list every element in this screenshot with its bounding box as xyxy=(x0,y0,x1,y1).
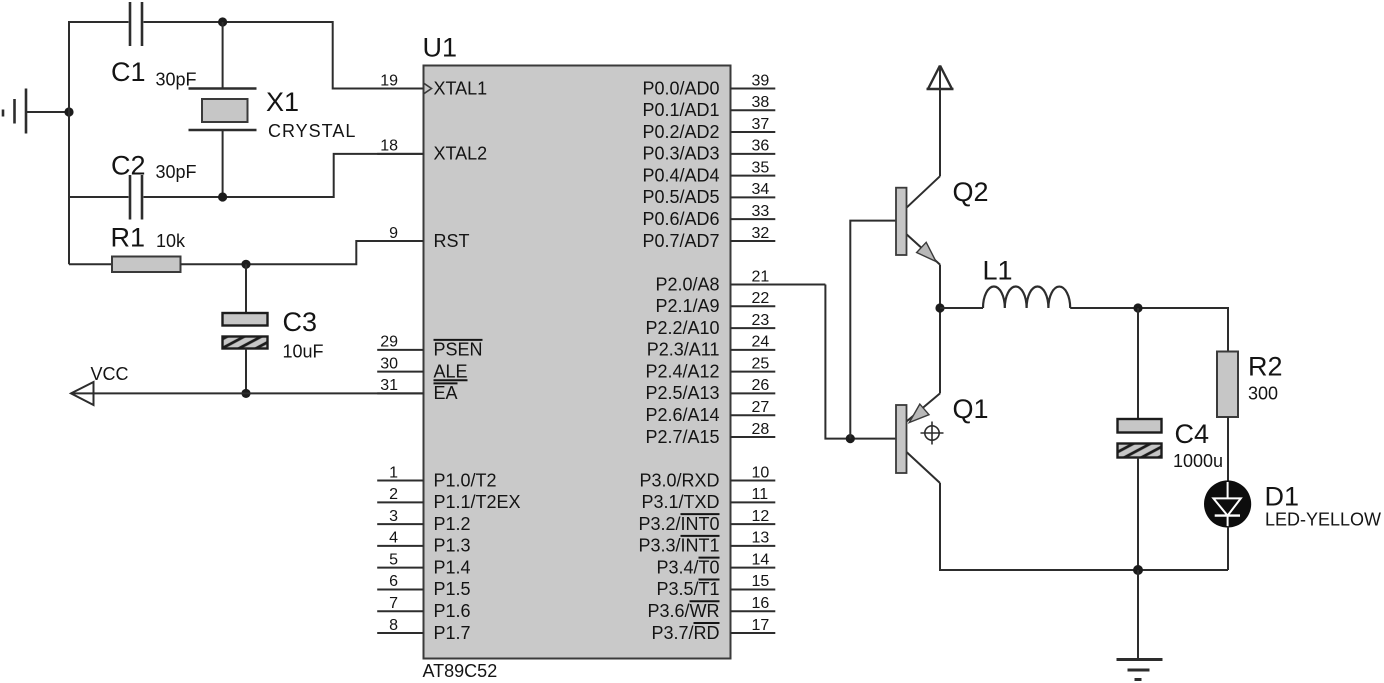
svg-text:P0.0/AD0: P0.0/AD0 xyxy=(642,78,719,98)
ground (top left) xyxy=(3,89,26,134)
svg-text:39: 39 xyxy=(752,72,770,89)
pin 3 P1.2 xyxy=(377,508,470,534)
pin 26 P2.5/A13 xyxy=(645,377,775,403)
pin 23 P2.2/A10 xyxy=(645,312,775,338)
power arrow (supply) xyxy=(927,66,954,90)
svg-text:P0.3/AD3: P0.3/AD3 xyxy=(642,144,719,164)
pin 13 P3.3/INT1 xyxy=(638,530,775,556)
pin 37 P0.2/AD2 xyxy=(642,116,775,142)
wire Q2 base riser xyxy=(850,221,896,439)
svg-text:X1: X1 xyxy=(266,87,299,117)
crystal X1 xyxy=(189,89,257,131)
svg-text:2: 2 xyxy=(389,486,398,503)
svg-text:C2: C2 xyxy=(111,151,146,181)
pin 39 P0.0/AD0 xyxy=(642,72,775,98)
wire C2 left lead xyxy=(69,196,129,198)
svg-text:28: 28 xyxy=(752,421,770,438)
svg-text:16: 16 xyxy=(752,595,770,612)
junction dot C4 top xyxy=(1133,303,1142,312)
pin 30 ALE xyxy=(377,355,467,381)
junction dot base node xyxy=(846,434,855,443)
transistor Q1 (PNP) xyxy=(896,393,940,483)
svg-text:4: 4 xyxy=(389,530,398,547)
svg-text:21: 21 xyxy=(752,268,770,285)
svg-text:P1.7: P1.7 xyxy=(434,623,471,643)
pin 19 XTAL1 xyxy=(377,72,487,98)
wire P2.0 to base node xyxy=(825,285,896,439)
svg-text:CRYSTAL: CRYSTAL xyxy=(268,121,356,141)
svg-text:Q1: Q1 xyxy=(953,394,989,424)
pin 18 XTAL2 xyxy=(377,138,487,164)
wire supply to Q2 collector xyxy=(939,67,941,176)
svg-text:24: 24 xyxy=(752,334,770,351)
wire ground to left rail xyxy=(26,111,69,113)
svg-text:C4: C4 xyxy=(1175,419,1210,449)
junction dot C2/X1 bottom xyxy=(218,192,227,201)
pin 32 P0.7/AD7 xyxy=(642,225,775,251)
svg-text:22: 22 xyxy=(752,290,770,307)
svg-text:14: 14 xyxy=(752,551,770,568)
svg-text:300: 300 xyxy=(1248,384,1278,404)
svg-text:P2.0/A8: P2.0/A8 xyxy=(655,274,719,294)
wire R1 left lead xyxy=(69,263,112,265)
svg-text:P0.6/AD6: P0.6/AD6 xyxy=(642,209,719,229)
wire C1 right to XTAL1 xyxy=(144,22,424,89)
wire R2 to D1 xyxy=(1227,417,1229,482)
capacitor C2 xyxy=(130,175,142,220)
svg-text:34: 34 xyxy=(752,181,770,198)
svg-text:6: 6 xyxy=(389,573,398,590)
svg-text:10: 10 xyxy=(752,464,770,481)
svg-text:P0.7/AD7: P0.7/AD7 xyxy=(642,231,719,251)
svg-text:10uF: 10uF xyxy=(283,342,324,362)
pin 24 P2.3/A11 xyxy=(647,334,776,360)
svg-text:23: 23 xyxy=(752,312,770,329)
wire X1 bottom lead xyxy=(222,130,224,197)
wire to bottom ground xyxy=(1137,570,1139,660)
svg-text:29: 29 xyxy=(380,334,398,351)
svg-text:12: 12 xyxy=(752,508,770,525)
wire VCC to EA xyxy=(71,392,424,394)
svg-text:C1: C1 xyxy=(111,57,146,87)
svg-text:P0.2/AD2: P0.2/AD2 xyxy=(642,122,719,142)
svg-text:19: 19 xyxy=(380,72,398,89)
svg-text:37: 37 xyxy=(752,116,770,133)
junction dot L1 node xyxy=(935,303,944,312)
pin 10 P3.0/RXD xyxy=(639,464,775,490)
pin 28 P2.7/A15 xyxy=(645,421,775,447)
svg-text:9: 9 xyxy=(389,225,398,242)
svg-text:31: 31 xyxy=(380,377,398,394)
svg-text:U1: U1 xyxy=(423,33,458,63)
wire X1 top lead xyxy=(222,22,224,88)
svg-text:P1.0/T2: P1.0/T2 xyxy=(434,470,497,490)
svg-text:EA: EA xyxy=(434,383,458,403)
svg-text:P2.3/A11: P2.3/A11 xyxy=(647,340,720,360)
svg-text:7: 7 xyxy=(389,595,398,612)
pin 22 P2.1/A9 xyxy=(655,290,775,316)
wire C3 bottom lead xyxy=(245,349,247,394)
svg-text:P1.5: P1.5 xyxy=(434,579,471,599)
capacitor C1 xyxy=(130,2,142,46)
svg-text:P1.1/T2EX: P1.1/T2EX xyxy=(434,492,521,512)
ground (bottom right) xyxy=(1117,660,1163,680)
capacitor C4 electrolytic xyxy=(1118,419,1162,458)
svg-text:1: 1 xyxy=(389,464,398,481)
svg-text:L1: L1 xyxy=(983,256,1013,286)
svg-text:P2.6/A14: P2.6/A14 xyxy=(645,405,719,425)
svg-text:R2: R2 xyxy=(1248,352,1283,382)
svg-text:13: 13 xyxy=(752,530,770,547)
svg-text:36: 36 xyxy=(752,138,770,155)
power VCC arrow xyxy=(71,382,94,405)
svg-text:30pF: 30pF xyxy=(156,162,197,182)
wire C4 bottom lead xyxy=(1137,458,1139,571)
svg-text:P2.5/A13: P2.5/A13 xyxy=(645,383,719,403)
svg-text:5: 5 xyxy=(389,551,398,568)
pin 34 P0.5/AD5 xyxy=(642,181,775,207)
transistor Q2 (NPN) xyxy=(896,176,940,264)
wire C2 to XTAL2 xyxy=(144,154,424,197)
wire C1 left lead xyxy=(69,21,129,23)
svg-text:P0.4/AD4: P0.4/AD4 xyxy=(642,165,719,185)
pin 1 P1.0/T2 xyxy=(377,464,496,490)
svg-text:P3.7/RD: P3.7/RD xyxy=(651,623,719,643)
IC U1 AT89C52 body xyxy=(424,66,731,659)
svg-text:AT89C52: AT89C52 xyxy=(423,661,498,681)
wire emitter rail to L1 node xyxy=(939,265,941,394)
wire C3 top lead xyxy=(245,264,247,313)
svg-text:27: 27 xyxy=(752,399,770,416)
junction dot R1/C3 xyxy=(241,260,250,269)
svg-text:D1: D1 xyxy=(1265,482,1300,512)
crosshair marker Q1 xyxy=(921,422,944,445)
pin 6 P1.5 xyxy=(377,573,470,599)
svg-text:PSEN: PSEN xyxy=(434,340,483,360)
resistor R1 xyxy=(112,257,181,273)
junction dot C3/VCC xyxy=(241,389,250,398)
pin 35 P0.4/AD4 xyxy=(642,159,775,185)
svg-text:25: 25 xyxy=(752,355,770,372)
svg-text:XTAL1: XTAL1 xyxy=(434,78,488,98)
svg-text:30: 30 xyxy=(380,355,398,372)
svg-text:P3.3/INT1: P3.3/INT1 xyxy=(638,536,719,556)
wire left rail xyxy=(68,21,70,264)
svg-text:C3: C3 xyxy=(283,307,318,337)
pin 38 P0.1/AD1 xyxy=(642,94,775,120)
capacitor C3 electrolytic xyxy=(223,313,268,349)
pin 5 P1.4 xyxy=(377,551,470,577)
pin 7 P1.6 xyxy=(377,595,470,621)
pin 2 P1.1/T2EX xyxy=(377,486,520,512)
pin 14 P3.4/T0 xyxy=(656,551,775,577)
svg-text:XTAL2: XTAL2 xyxy=(434,144,488,164)
svg-text:ALE: ALE xyxy=(434,361,468,381)
svg-text:P1.3: P1.3 xyxy=(434,536,471,556)
pin 29 PSEN xyxy=(377,334,482,360)
junction dot C1/X1 top xyxy=(218,17,227,26)
svg-text:8: 8 xyxy=(389,617,398,634)
pin 31 EA xyxy=(377,377,457,403)
svg-text:P2.1/A9: P2.1/A9 xyxy=(655,296,719,316)
inductor L1 xyxy=(983,286,1070,308)
svg-text:33: 33 xyxy=(752,203,770,220)
svg-text:35: 35 xyxy=(752,159,770,176)
svg-text:32: 32 xyxy=(752,225,770,242)
svg-text:18: 18 xyxy=(380,138,398,155)
wire C4 top lead xyxy=(1137,308,1139,419)
resistor R2 xyxy=(1217,352,1238,418)
pin 16 P3.6/WR xyxy=(647,595,775,621)
svg-text:P3.1/TXD: P3.1/TXD xyxy=(641,492,719,512)
LED D1 xyxy=(1204,480,1251,527)
svg-text:P1.6: P1.6 xyxy=(434,601,471,621)
svg-text:17: 17 xyxy=(752,617,770,634)
svg-text:3: 3 xyxy=(389,508,398,525)
wire R1 to RST xyxy=(181,241,424,264)
pin 36 P0.3/AD3 xyxy=(642,138,775,164)
svg-text:RST: RST xyxy=(434,231,470,251)
svg-text:15: 15 xyxy=(752,573,770,590)
pin 17 P3.7/RD xyxy=(651,617,775,643)
pin 33 P0.6/AD6 xyxy=(642,203,775,229)
svg-text:Q2: Q2 xyxy=(953,177,989,207)
svg-text:P3.6/WR: P3.6/WR xyxy=(647,601,719,621)
junction dot ground/left rail xyxy=(64,107,73,116)
svg-text:P2.4/A12: P2.4/A12 xyxy=(645,361,719,381)
pin 15 P3.5/T1 xyxy=(656,573,775,599)
svg-text:10k: 10k xyxy=(156,231,186,251)
svg-text:P0.1/AD1: P0.1/AD1 xyxy=(642,100,719,120)
pin 21 P2.0/A8 xyxy=(655,268,825,294)
wire D1 to bottom rail xyxy=(1227,526,1229,570)
junction dot bottom rail/C4 xyxy=(1133,565,1143,575)
svg-text:P3.4/T0: P3.4/T0 xyxy=(656,557,719,577)
wire Q1 collector to bottom rail xyxy=(940,483,1228,570)
svg-text:11: 11 xyxy=(752,486,769,503)
svg-text:VCC: VCC xyxy=(91,364,129,384)
svg-text:P1.4: P1.4 xyxy=(434,557,471,577)
pin 12 P3.2/INT0 xyxy=(638,508,775,534)
pin 4 P1.3 xyxy=(377,530,470,556)
pin 11 P3.1/TXD xyxy=(641,486,775,512)
svg-text:R1: R1 xyxy=(111,223,146,253)
svg-text:26: 26 xyxy=(752,377,770,394)
svg-text:38: 38 xyxy=(752,94,770,111)
svg-text:P3.2/INT0: P3.2/INT0 xyxy=(638,514,719,534)
svg-text:P0.5/AD5: P0.5/AD5 xyxy=(642,187,719,207)
svg-text:P2.2/A10: P2.2/A10 xyxy=(645,318,719,338)
pin 25 P2.4/A12 xyxy=(645,355,775,381)
svg-text:P1.2: P1.2 xyxy=(434,514,471,534)
pin 9 RST xyxy=(377,225,469,251)
svg-text:P3.0/RXD: P3.0/RXD xyxy=(639,470,719,490)
wire L1 left lead xyxy=(940,307,983,309)
pin 27 P2.6/A14 xyxy=(645,399,775,425)
pin 8 P1.7 xyxy=(377,617,470,643)
svg-text:1000u: 1000u xyxy=(1173,451,1223,471)
svg-text:LED-YELLOW: LED-YELLOW xyxy=(1265,510,1381,530)
svg-text:P2.7/A15: P2.7/A15 xyxy=(645,427,719,447)
wire L1 to R2 top xyxy=(1070,308,1228,352)
svg-text:P3.5/T1: P3.5/T1 xyxy=(656,579,719,599)
svg-text:30pF: 30pF xyxy=(156,70,197,90)
